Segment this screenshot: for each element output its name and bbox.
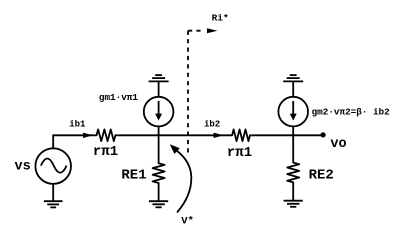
svg-text:Ri*: Ri*: [212, 13, 229, 24]
svg-text:V*: V*: [181, 215, 194, 227]
current source gm1vp1 U1: [144, 97, 174, 127]
resistor RE2: [287, 161, 299, 184]
svg-text:gm1·vπ1: gm1·vπ1: [99, 92, 138, 103]
svg-text:RE2: RE2: [309, 167, 334, 183]
wire middle segment: [117, 134, 230, 136]
ground below RE2: [284, 184, 303, 207]
wire right segment to vo: [252, 134, 323, 136]
Ri* arrowhead: [207, 28, 217, 33]
current arrow ib2: [214, 133, 224, 138]
resistor RE1: [153, 162, 165, 185]
ground above U2: [283, 75, 303, 97]
svg-text:ib2: ib2: [204, 119, 220, 129]
svg-text:vo: vo: [330, 137, 346, 152]
svg-text:RE1: RE1: [121, 168, 146, 184]
wire vs top riser: [53, 135, 95, 148]
node vo dot: [321, 132, 326, 137]
voltage source vs: [35, 148, 71, 184]
ground above U1: [149, 75, 169, 97]
svg-text:gm2·vπ2=β· ib2: gm2·vπ2=β· ib2: [312, 107, 391, 118]
svg-text:ib1: ib1: [69, 119, 86, 129]
ground below RE1: [149, 185, 168, 208]
ground below vs: [44, 184, 63, 207]
V* curved arrow: [170, 144, 192, 212]
current arrow ib1: [83, 133, 93, 138]
current source gm2vp2 U2: [278, 97, 308, 127]
wire U2 to node B: [292, 126, 294, 161]
svg-text:rπ1: rπ1: [227, 145, 252, 161]
dashed Ri* probe line: [188, 31, 201, 155]
wire U1 to node A: [158, 126, 160, 161]
resistor rp1 left: [95, 129, 117, 141]
svg-text:vs: vs: [15, 160, 31, 175]
svg-text:rπ1: rπ1: [93, 144, 118, 160]
resistor rp1 right: [231, 129, 252, 141]
